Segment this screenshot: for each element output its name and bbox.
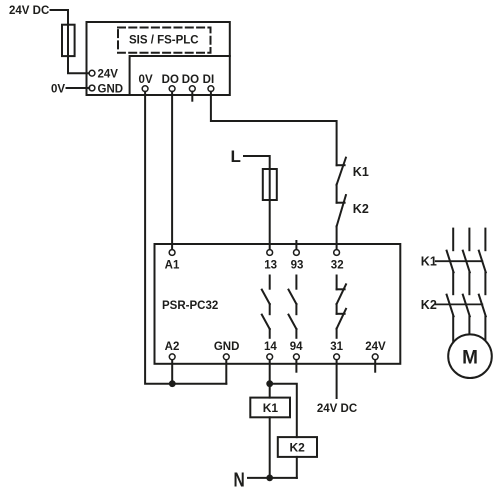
NC contacts 32-31 (336, 276, 338, 290)
svg-text:K2: K2 (290, 440, 306, 454)
wire (68, 56, 89, 73)
svg-text:31: 31 (330, 341, 343, 353)
wire A2 stub (171, 360, 173, 384)
wire K1 coil to N (269, 417, 271, 478)
terminal 13 (267, 250, 273, 256)
svg-text:K1: K1 (421, 255, 437, 269)
wire 31 down (336, 360, 338, 398)
svg-text:K2: K2 (353, 202, 369, 216)
svg-text:M: M (462, 348, 478, 369)
wire K2 to 32 (336, 226, 338, 249)
svg-text:K1: K1 (353, 165, 369, 179)
terminal strip divider (130, 56, 230, 95)
dashed box SIS / FS-PLC (118, 28, 211, 53)
svg-text:SIS / FS-PLC: SIS / FS-PLC (129, 34, 199, 46)
svg-text:A2: A2 (165, 341, 180, 353)
svg-text:13: 13 (264, 259, 277, 271)
junction (266, 475, 273, 482)
svg-text:GND: GND (214, 341, 240, 353)
svg-text:DO: DO (162, 74, 179, 86)
svg-text:N: N (233, 468, 244, 490)
relay coil K2 (278, 437, 317, 457)
terminal 32 (334, 250, 340, 256)
terminal 24V (89, 70, 95, 76)
stub 24V (374, 360, 376, 372)
3-phase supply stubs (452, 229, 454, 251)
fuse F1 (67, 25, 69, 56)
svg-text:0V: 0V (51, 84, 65, 96)
wire 0V rail (145, 92, 226, 384)
junction (266, 380, 273, 387)
svg-text:0V: 0V (139, 74, 153, 86)
wire K2 coil to N (296, 457, 298, 478)
svg-text:24V: 24V (98, 69, 119, 81)
wire DI to K1 contact (211, 92, 337, 166)
svg-text:93: 93 (291, 259, 304, 271)
wire (244, 156, 270, 169)
svg-text:K2: K2 (421, 298, 437, 312)
wire branch to K2 coil (270, 384, 297, 437)
wire (51, 10, 69, 25)
svg-text:DO: DO (182, 74, 199, 86)
wire fuse to 13 (269, 200, 271, 250)
wire GND stub (225, 360, 227, 384)
terminal GND (89, 85, 95, 91)
NC contact K1 (337, 164, 345, 166)
svg-text:K1: K1 (263, 401, 279, 415)
junction (169, 380, 176, 387)
PLC box (87, 22, 230, 95)
wire (67, 87, 90, 89)
terminal A1 (169, 250, 175, 256)
svg-text:32: 32 (331, 259, 344, 271)
svg-text:14: 14 (264, 341, 277, 353)
NO contacts 93-94 (295, 276, 297, 289)
svg-text:24V DC: 24V DC (317, 403, 357, 415)
NC contact K2 (337, 202, 345, 204)
fuse F2 (269, 169, 271, 200)
terminal 93 (295, 241, 297, 250)
stub DO2 (191, 92, 193, 101)
svg-text:GND: GND (98, 84, 124, 96)
svg-text:24V DC: 24V DC (9, 5, 49, 17)
wire (452, 272, 454, 294)
wire N (248, 477, 297, 479)
NO contacts 13-14 (269, 276, 271, 289)
svg-text:24V: 24V (365, 341, 386, 353)
svg-text:L: L (231, 147, 241, 166)
wire (336, 185, 338, 203)
PSR box (155, 244, 401, 364)
motor M1 (448, 334, 492, 378)
svg-text:DI: DI (203, 74, 215, 86)
stub 94 (295, 360, 297, 372)
svg-text:PSR-PC32: PSR-PC32 (162, 300, 218, 312)
wire to motor (452, 316, 454, 342)
svg-text:94: 94 (290, 341, 303, 353)
wire DO1 to A1 (171, 92, 173, 250)
svg-text:A1: A1 (165, 259, 180, 271)
wire 14 down (269, 360, 271, 398)
relay coil K1 (250, 398, 290, 418)
